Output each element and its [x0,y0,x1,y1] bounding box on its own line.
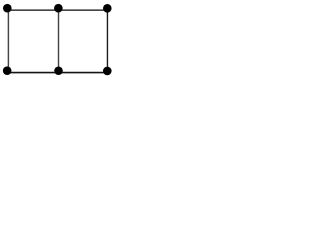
wire bottom-left to bottom-mid [8,72,58,74]
wire top-mid to bottom-mid [58,10,60,73]
node bottom-left [3,66,12,75]
node bottom-mid [54,66,63,75]
node top-mid [54,4,63,13]
wire top-right to bottom-right [106,10,108,73]
node top-right [103,4,112,13]
wire top-left to bottom-left [7,10,9,73]
node top-left [3,4,12,13]
wire top-mid to top-right [59,9,108,11]
wire bottom-mid to bottom-right [59,72,108,74]
node bottom-right [103,67,112,76]
wire top-left to top-mid [8,9,58,11]
